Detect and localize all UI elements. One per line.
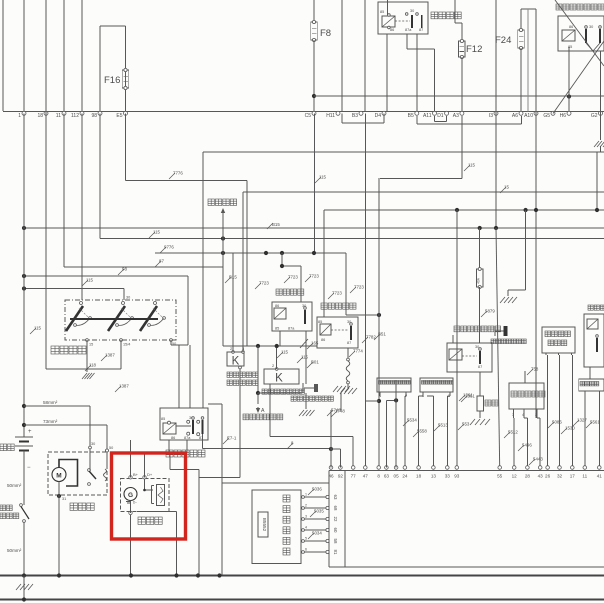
svg-text:98: 98 — [91, 113, 97, 119]
svg-text:6: 6 — [305, 548, 307, 552]
svg-text:1: 1 — [18, 113, 21, 119]
svg-text:B51: B51 — [378, 332, 386, 337]
svg-text:17: 17 — [570, 474, 576, 479]
svg-text:115: 115 — [319, 175, 327, 180]
svg-text:50mm²: 50mm² — [7, 548, 22, 553]
svg-text:30: 30 — [91, 442, 95, 446]
svg-text:G2: G2 — [591, 113, 598, 119]
svg-text:115: 115 — [301, 355, 309, 360]
svg-text:7776: 7776 — [173, 171, 183, 176]
svg-text:5035: 5035 — [314, 509, 324, 514]
svg-text:7774: 7774 — [353, 349, 363, 354]
svg-text:118: 118 — [89, 363, 97, 368]
svg-text:5879: 5879 — [485, 309, 495, 314]
svg-text:11: 11 — [56, 113, 61, 119]
svg-text:1530: 1530 — [565, 426, 575, 431]
svg-text:5443: 5443 — [533, 457, 543, 462]
svg-text:86: 86 — [390, 28, 394, 32]
svg-text:30: 30 — [589, 25, 593, 29]
svg-text:85: 85 — [275, 327, 279, 331]
svg-text:85: 85 — [318, 320, 322, 324]
svg-text:E7-1: E7-1 — [227, 436, 237, 441]
svg-text:13: 13 — [431, 474, 437, 479]
svg-text:K: K — [275, 373, 283, 385]
svg-text:55: 55 — [497, 474, 503, 479]
svg-text:5561: 5561 — [590, 420, 600, 425]
svg-text:18: 18 — [416, 474, 422, 479]
svg-text:B5: B5 — [408, 113, 414, 119]
svg-text:77: 77 — [351, 474, 357, 479]
svg-text:B5552: B5552 — [262, 518, 267, 532]
svg-text:+: + — [28, 429, 32, 435]
svg-text:50: 50 — [109, 446, 113, 450]
svg-text:87a: 87a — [405, 28, 412, 32]
svg-text:73mm²: 73mm² — [43, 419, 58, 424]
svg-text:I3: I3 — [489, 113, 493, 119]
svg-text:B3: B3 — [352, 113, 358, 119]
svg-text:F16: F16 — [104, 75, 120, 86]
svg-text:87a: 87a — [184, 436, 191, 440]
svg-text:115: 115 — [34, 326, 42, 331]
svg-text:26: 26 — [545, 474, 551, 479]
svg-text:B01: B01 — [311, 360, 319, 365]
svg-text:A6: A6 — [512, 113, 518, 119]
svg-text:115: 115 — [468, 163, 476, 168]
svg-text:98: 98 — [122, 267, 127, 272]
svg-text:1361: 1361 — [465, 394, 475, 399]
svg-text:47: 47 — [363, 474, 369, 479]
svg-text:758: 758 — [531, 367, 539, 372]
svg-text:43: 43 — [538, 474, 544, 479]
svg-text:5512: 5512 — [508, 430, 518, 435]
svg-text:H6: H6 — [560, 113, 567, 119]
svg-text:22: 22 — [333, 517, 338, 522]
svg-text:24: 24 — [402, 474, 408, 479]
svg-text:33: 33 — [445, 474, 451, 479]
svg-text:81: 81 — [333, 550, 338, 555]
svg-text:4: 4 — [305, 526, 307, 530]
svg-text:H11: H11 — [326, 113, 335, 119]
svg-text:1387: 1387 — [119, 384, 129, 389]
svg-text:D1: D1 — [437, 113, 444, 119]
svg-text:28: 28 — [525, 474, 531, 479]
svg-text:G5: G5 — [543, 113, 550, 119]
svg-text:87a: 87a — [288, 327, 295, 331]
svg-text:F8: F8 — [320, 28, 331, 39]
svg-text:D4: D4 — [375, 113, 382, 119]
svg-text:86: 86 — [569, 25, 573, 29]
svg-text:87: 87 — [478, 365, 482, 369]
svg-text:A3: A3 — [453, 113, 459, 119]
svg-text:5086: 5086 — [552, 420, 562, 425]
svg-text:3: 3 — [305, 515, 307, 519]
svg-text:F24: F24 — [495, 35, 511, 46]
svg-text:40A: 40A — [477, 277, 481, 284]
svg-text:5034: 5034 — [312, 531, 322, 536]
svg-text:18: 18 — [37, 113, 43, 119]
svg-text:46: 46 — [328, 474, 334, 479]
svg-text:15/4: 15/4 — [123, 343, 130, 347]
svg-text:05: 05 — [394, 474, 400, 479]
svg-text:63: 63 — [333, 495, 338, 500]
svg-text:1748: 1748 — [335, 409, 345, 414]
svg-text:50mm²: 50mm² — [7, 483, 22, 488]
svg-text:12: 12 — [512, 474, 518, 479]
svg-text:A: A — [261, 408, 265, 414]
svg-text:K: K — [232, 356, 240, 368]
svg-text:7723: 7723 — [332, 291, 342, 296]
svg-text:86: 86 — [275, 304, 279, 308]
svg-text:G: G — [128, 492, 133, 499]
svg-text:41: 41 — [597, 474, 603, 479]
svg-text:D+: D+ — [147, 472, 153, 477]
svg-text:93: 93 — [454, 474, 460, 479]
svg-text:553: 553 — [462, 422, 470, 427]
svg-text:E5: E5 — [116, 113, 122, 119]
svg-text:86: 86 — [321, 338, 325, 342]
svg-text:92: 92 — [338, 474, 344, 479]
svg-text:D−: D− — [133, 501, 137, 505]
svg-text:15: 15 — [504, 185, 509, 190]
svg-text:5036: 5036 — [312, 487, 322, 492]
svg-text:68: 68 — [333, 506, 338, 511]
svg-text:58: 58 — [333, 539, 338, 544]
svg-text:5534: 5534 — [407, 418, 417, 423]
svg-text:5496: 5496 — [522, 443, 532, 448]
svg-text:M: M — [56, 473, 61, 480]
svg-text:165: 165 — [311, 341, 319, 346]
svg-text:F12: F12 — [466, 44, 482, 55]
svg-text:85: 85 — [380, 10, 384, 14]
svg-text:115: 115 — [86, 278, 94, 283]
svg-text:7723: 7723 — [309, 274, 319, 279]
svg-text:85: 85 — [161, 417, 165, 421]
svg-text:58mm²: 58mm² — [43, 400, 58, 405]
svg-text:C5: C5 — [305, 113, 312, 119]
svg-text:1: 1 — [305, 493, 307, 497]
svg-text:5: 5 — [305, 537, 307, 541]
svg-text:B15: B15 — [272, 222, 280, 227]
svg-text:87: 87 — [419, 28, 423, 32]
svg-text:5558: 5558 — [417, 429, 427, 434]
svg-text:15: 15 — [89, 343, 93, 347]
svg-text:86: 86 — [171, 436, 175, 440]
svg-text:1327: 1327 — [577, 418, 587, 423]
svg-text:A10: A10 — [524, 113, 533, 119]
svg-text:2: 2 — [305, 504, 307, 508]
svg-text:B+: B+ — [133, 472, 139, 477]
svg-text:8: 8 — [377, 474, 380, 479]
svg-text:112: 112 — [71, 113, 79, 119]
svg-text:−: − — [27, 465, 31, 471]
svg-text:1387: 1387 — [105, 353, 115, 358]
svg-text:115: 115 — [281, 350, 289, 355]
svg-text:63: 63 — [384, 474, 390, 479]
svg-text:A11: A11 — [423, 113, 432, 119]
svg-text:32: 32 — [557, 474, 563, 479]
svg-text:5513: 5513 — [438, 423, 448, 428]
svg-text:7723: 7723 — [288, 275, 298, 280]
svg-text:115: 115 — [153, 230, 161, 235]
svg-text:7723: 7723 — [259, 281, 269, 286]
svg-text:31: 31 — [62, 497, 66, 501]
svg-text:7723: 7723 — [354, 285, 364, 290]
svg-text:87: 87 — [347, 341, 351, 345]
svg-text:11: 11 — [582, 474, 587, 479]
svg-text:30: 30 — [410, 9, 414, 13]
svg-text:87: 87 — [159, 259, 164, 264]
svg-text:30: 30 — [126, 296, 130, 300]
svg-text:9776: 9776 — [164, 245, 174, 250]
svg-text:60: 60 — [333, 528, 338, 533]
